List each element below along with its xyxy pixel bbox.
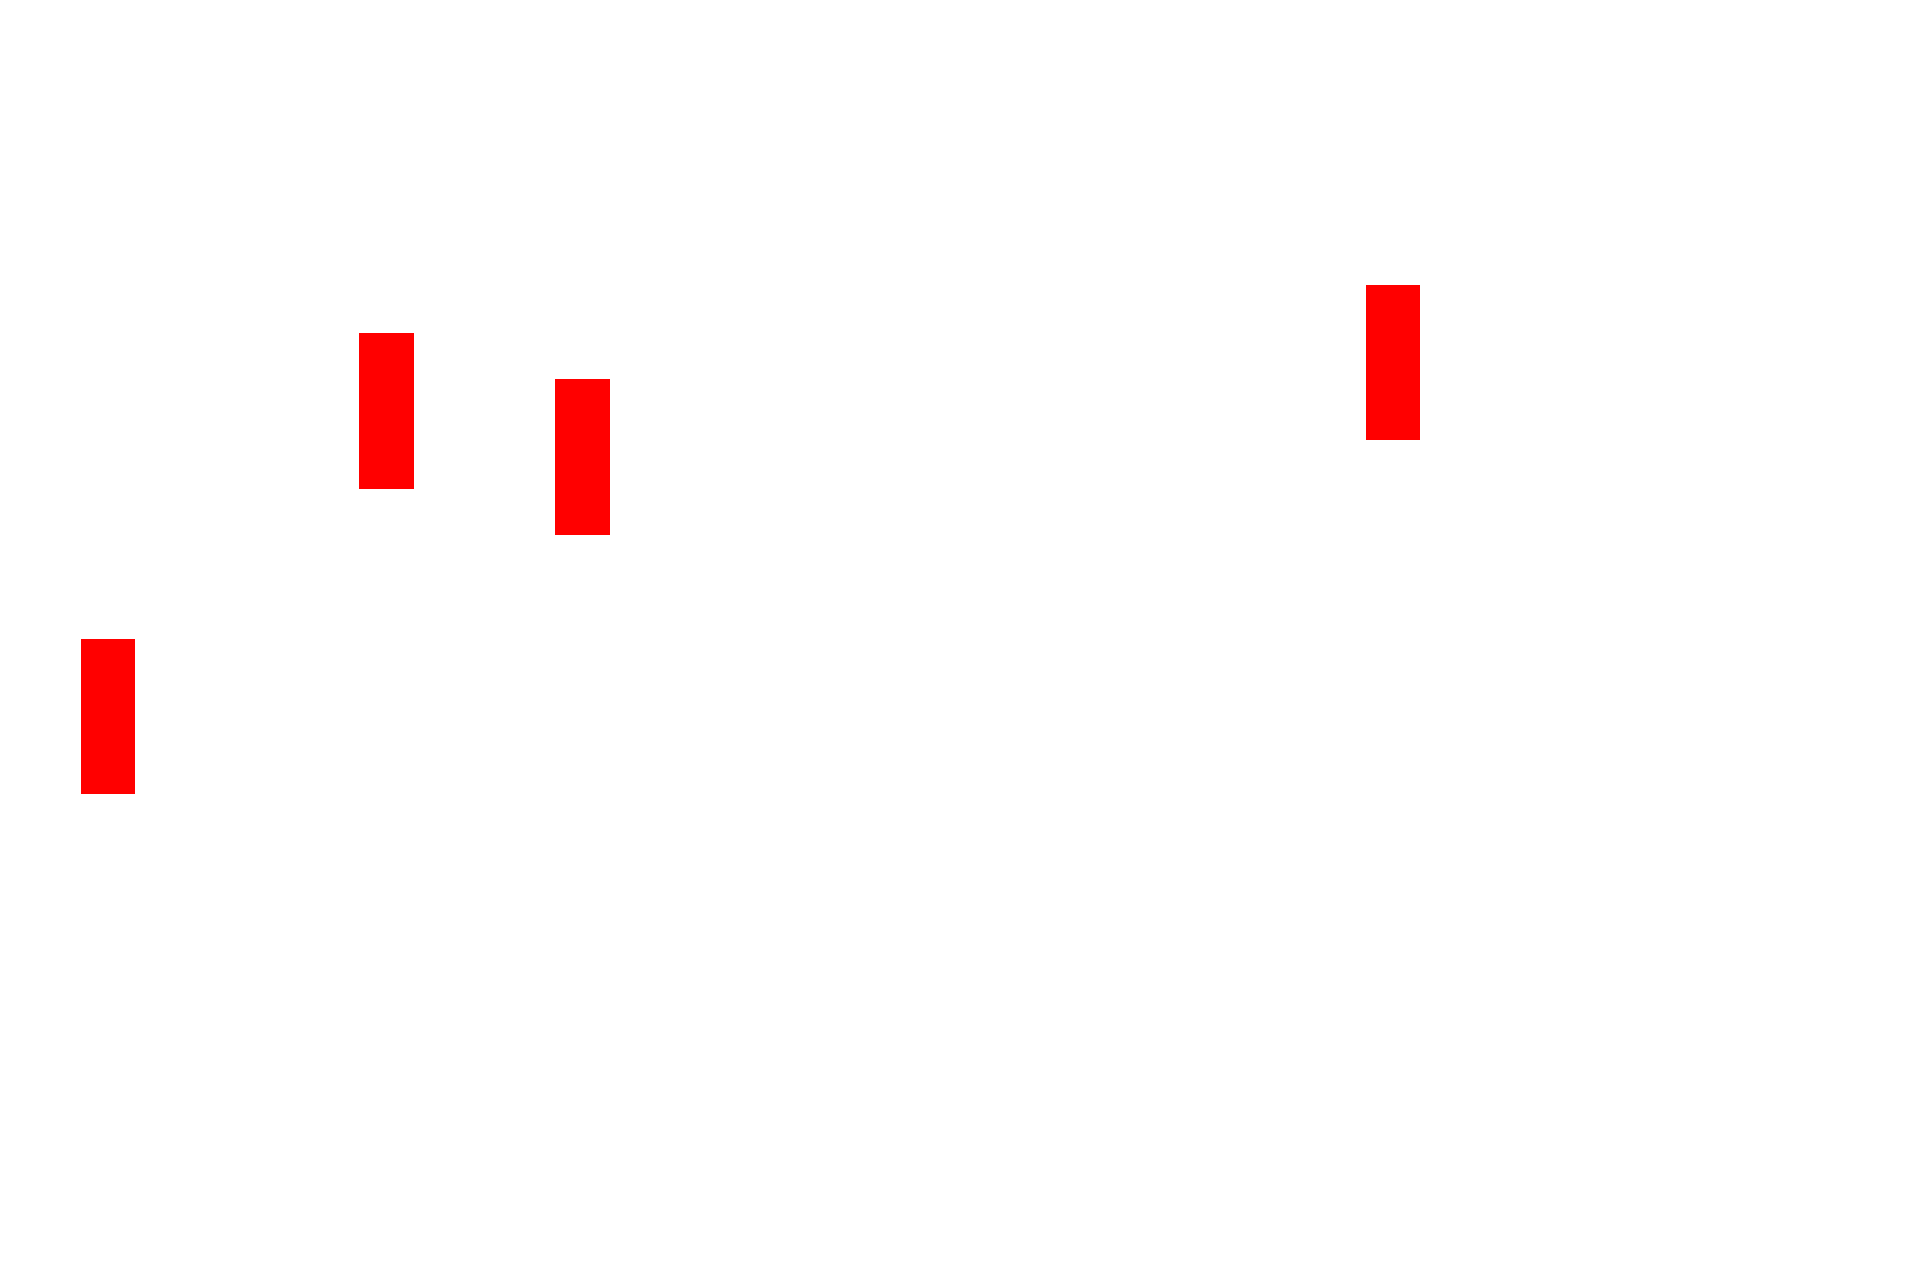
red bar 4 (lower-left) xyxy=(81,639,135,794)
red bar 3 (upper-right) xyxy=(1366,285,1420,440)
red bar 1 (upper-left area) xyxy=(359,333,414,489)
red bar 2 (center-left) xyxy=(555,379,610,535)
